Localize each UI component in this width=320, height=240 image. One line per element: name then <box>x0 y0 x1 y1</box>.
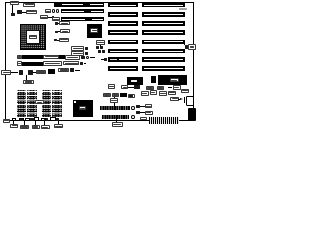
jumper + label right of J11 <box>131 115 135 119</box>
cache SRAM bank row 1 <box>17 55 22 59</box>
wire from W1 down <box>12 5 13 13</box>
super I/O chip U3 <box>158 75 187 85</box>
BIOS ROM chip <box>73 100 93 117</box>
jumper label W2 <box>23 3 35 8</box>
arrow to keyboard connector <box>178 98 180 101</box>
cache SRAM bank row 2 <box>17 61 22 65</box>
DRAM bank 0 column 2 <box>27 90 37 116</box>
small connector label left of power header <box>140 117 146 121</box>
keyboard controller chip U2 <box>127 77 143 85</box>
arrow + jumper left of row 7 <box>104 58 108 61</box>
DRAM bank label <box>35 100 44 105</box>
bottom edge jumper headers <box>12 118 16 121</box>
wire from J11 to label below board <box>115 119 118 123</box>
pin header J10 <box>100 106 131 110</box>
jumper labels below board edge <box>10 124 18 128</box>
DRAM bank 0 column 1 <box>17 90 27 116</box>
ISA slot row 2 <box>108 12 138 17</box>
slot id text <box>179 8 188 10</box>
power connector header <box>149 117 179 123</box>
board outline <box>5 2 193 121</box>
ISA slot row 4 <box>108 30 138 35</box>
jumper W1 body <box>11 13 16 17</box>
chipset chip U1 (top middle) <box>87 24 102 38</box>
ISA slot row 5 <box>108 40 138 45</box>
wire down to label <box>25 75 28 80</box>
ISA slot row 3 <box>108 21 138 26</box>
CPU socket inner cavity <box>26 30 40 44</box>
jumper label W1 (top-left, on top border) <box>10 1 20 6</box>
CPU socket (PGA) <box>20 24 46 50</box>
front-panel header label <box>113 97 116 99</box>
stacked jumper labels right of cache <box>71 46 84 50</box>
jumper W6 + label (right of CPU socket) <box>55 22 58 24</box>
jumper label W4 <box>45 9 51 13</box>
jumper W7 + label <box>55 31 58 33</box>
jumper cluster below chip U1 <box>96 40 106 44</box>
CPU label <box>29 35 38 40</box>
jumper W8 + label <box>54 39 57 41</box>
jumper at right board edge (row 5) <box>183 40 186 44</box>
black label on slot row 7 <box>109 57 120 61</box>
wires down to labels <box>12 121 15 124</box>
left edge jumper cluster row <box>1 70 11 75</box>
glue logic chip (small DIP) <box>48 69 56 74</box>
DRAM bank 1 column 2 <box>52 90 62 116</box>
jumper label + jumper <box>58 68 69 73</box>
jumper + label right of J10 <box>136 105 140 108</box>
jumper W2 body <box>17 10 22 14</box>
jumper label W3 + arrow <box>22 11 26 14</box>
memory slot J3 (row 3) with label at left <box>52 17 61 21</box>
ISA slot row 8 <box>108 66 138 71</box>
small glue chip <box>151 76 156 83</box>
jumpers below DRAM banks <box>19 118 23 121</box>
cache row 1 right label + jumper <box>65 55 80 59</box>
ISA slot row 1 (8/16-bit segments) <box>108 3 138 8</box>
ISA slot row 6 <box>108 49 138 54</box>
jumper label W10 (left, straddles border) <box>3 119 10 123</box>
memory slot J2 (row 2) with jumpers at left <box>52 9 56 13</box>
DRAM bank 1 column 1 <box>42 90 52 116</box>
keyboard DIN connector <box>188 108 196 121</box>
pin header J11 <box>102 115 129 119</box>
memory slot J1 (top middle, row 1) <box>54 3 61 7</box>
ISA slot row 7 <box>108 57 138 62</box>
jumper label field (bottom middle) <box>108 84 115 88</box>
keyboard connector outline <box>186 96 194 106</box>
jumper label W5 + arrow right <box>40 15 48 19</box>
